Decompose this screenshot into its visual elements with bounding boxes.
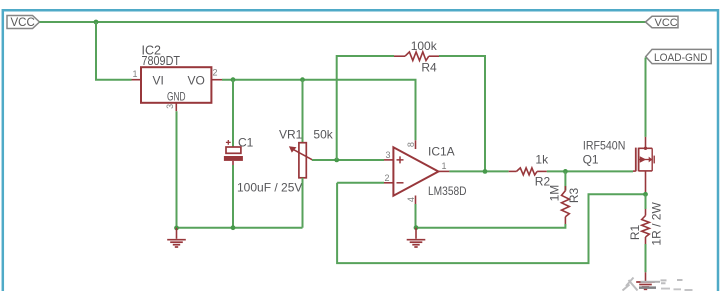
wire VR1 bottom to ground rail [302, 178, 304, 228]
node junction on top rail [94, 20, 99, 25]
svg-text:Q1: Q1 [583, 153, 599, 167]
svg-text:1: 1 [442, 161, 447, 171]
wire op-amp V- to ground [415, 204, 417, 228]
wire VR1 wiper to op-amp non-inverting input [312, 159, 384, 161]
svg-text:1M: 1M [548, 185, 562, 202]
svg-text:8: 8 [406, 142, 416, 147]
wire R3 bottom to ground rail [416, 224, 565, 228]
wire R2 to gate node [547, 170, 633, 172]
svg-text:2: 2 [213, 68, 218, 78]
node junction ground left [174, 226, 179, 231]
resistor R4 100k [394, 52, 439, 61]
svg-text:3: 3 [386, 150, 391, 160]
svg-text:VI: VI [153, 74, 164, 88]
svg-text:1k: 1k [535, 153, 549, 167]
resistor R3 1M [562, 171, 570, 224]
node junction VR1 top [300, 77, 305, 82]
capacitor C1 (polarized) [224, 140, 243, 165]
node junction R2/R3/gate [563, 169, 568, 174]
svg-text:C1: C1 [238, 136, 254, 150]
wire LOAD-GND to Q1 drain [645, 58, 647, 137]
wire R4 feedback loop right side to output node [439, 56, 485, 171]
svg-text:100k: 100k [411, 39, 438, 53]
svg-text:4: 4 [406, 197, 416, 202]
wire output to R2 [449, 170, 508, 172]
wire VR1 top branch [302, 80, 304, 143]
transistor Q1 IRF540N [633, 137, 654, 194]
resistor R2 1k [509, 168, 547, 175]
svg-text:1: 1 [133, 69, 138, 79]
svg-text:R1: R1 [628, 225, 642, 241]
svg-text:GND: GND [167, 89, 186, 103]
wire Q1 source to R1 [645, 194, 647, 209]
wire top VCC rail [40, 21, 646, 23]
node junction Q1 source / R1 / sense [643, 192, 648, 197]
regulator IC2 7809DT [141, 67, 211, 103]
supply flag VCC (left) [7, 16, 40, 30]
svg-text:3: 3 [165, 104, 175, 109]
svg-text:LM358D: LM358D [428, 184, 467, 198]
op-amp output pin 1 stub [438, 170, 449, 172]
IC2 pin 1 stub [132, 79, 142, 81]
svg-text:50k: 50k [313, 127, 333, 141]
wire inverting input from sense loop [337, 182, 384, 184]
svg-text:100uF / 25V: 100uF / 25V [237, 181, 302, 195]
wire R1 bottom to ground [645, 244, 647, 272]
svg-text:VO: VO [188, 74, 205, 88]
svg-text:R4: R4 [421, 61, 437, 75]
op-amp V- pin 4 stub [415, 196, 417, 205]
node junction wiper / R4 feedback [334, 158, 339, 163]
op-amp V+ pin 8 stub [415, 140, 417, 149]
wire VCC drop to IC2 pin 1 [96, 22, 132, 80]
ground symbol (middle) [407, 228, 426, 247]
node junction output / R4 [483, 169, 488, 174]
svg-text:1R / 2W: 1R / 2W [649, 202, 663, 246]
op-amp U1 IC1A LM358D [393, 147, 438, 195]
svg-text:VCC: VCC [11, 17, 35, 29]
svg-text:R3: R3 [567, 188, 581, 204]
net flag LOAD-GND [646, 49, 712, 63]
wire ground rail left [177, 111, 303, 228]
potentiometer VR1 50k [289, 143, 313, 178]
node junction C1 bottom [231, 225, 236, 230]
ground symbol (bottom right) [636, 272, 655, 289]
supply flag VCC (right) [646, 16, 679, 29]
svg-text:2: 2 [385, 173, 390, 183]
svg-text:7809DT: 7809DT [142, 54, 181, 68]
svg-text:VR1: VR1 [279, 127, 303, 141]
node junction op-amp ground [414, 225, 419, 230]
IC2 pin 3 stub [175, 103, 177, 111]
wire 9V rail from IC2 VO to op-amp V+ [222, 80, 416, 141]
watermark (gray) [623, 278, 693, 291]
svg-text:VCC: VCC [655, 17, 678, 29]
resistor R1 1R / 2W [642, 209, 650, 244]
svg-text:IC1A: IC1A [428, 145, 455, 159]
wire non-inverting input [384, 159, 393, 161]
wire current-sense loop (pin2 to Q1 source) [337, 183, 645, 263]
wire C1 bottom to ground rail [232, 165, 234, 228]
ground symbol (left) [167, 228, 186, 247]
svg-text:IRF540N: IRF540N [583, 138, 626, 152]
wire R4 feedback loop left side [337, 56, 394, 160]
node junction C1 top [231, 77, 236, 82]
wire C1 top branch [232, 80, 234, 147]
svg-text:LOAD-GND: LOAD-GND [654, 52, 708, 64]
IC2 pin 2 stub [211, 79, 222, 81]
